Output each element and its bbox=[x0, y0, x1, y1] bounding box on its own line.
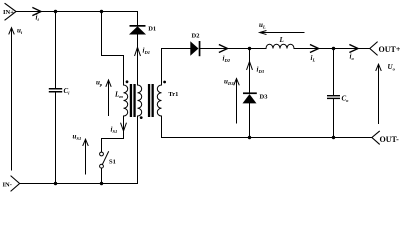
current arrow i_L bbox=[311, 45, 319, 52]
node junction D3 bottom bbox=[248, 136, 251, 139]
wire D3 branch lower bbox=[249, 103, 251, 137]
transformer core bars right bbox=[148, 84, 150, 117]
wire inductor to OUT+ bbox=[294, 48, 370, 50]
wire top rail bbox=[16, 11, 138, 13]
voltage arrow u_S1 bbox=[83, 139, 88, 174]
svg-text:uD3: uD3 bbox=[224, 78, 234, 87]
svg-text:iD3: iD3 bbox=[257, 66, 265, 75]
node junction bottom switch bbox=[100, 182, 103, 185]
svg-text:iS1: iS1 bbox=[111, 126, 118, 135]
node junction top C_i bbox=[54, 10, 57, 13]
node demag polarity dot bbox=[140, 116, 143, 119]
svg-text:Co: Co bbox=[342, 95, 350, 104]
wire C_i branch upper bbox=[55, 12, 57, 89]
transformer Tr1 demagnetizing winding bbox=[138, 85, 142, 116]
switch S1 bbox=[100, 152, 104, 156]
svg-text:ii: ii bbox=[36, 14, 40, 23]
svg-text:D2: D2 bbox=[192, 33, 200, 40]
voltage arrow u_L bbox=[260, 31, 304, 35]
wire primary top lead bbox=[102, 12, 124, 86]
wire primary bottom lead bbox=[102, 116, 124, 152]
svg-text:Lm: Lm bbox=[114, 91, 123, 100]
svg-text:iL: iL bbox=[311, 54, 316, 63]
current arrow i_i bbox=[33, 8, 41, 16]
diode D3 bbox=[243, 94, 257, 103]
voltage arrow u_p bbox=[106, 80, 111, 116]
capacitor C_i bbox=[49, 88, 62, 90]
node secondary polarity dot bbox=[163, 81, 166, 84]
transformer Tr1 secondary winding bbox=[157, 85, 161, 116]
voltage arrow u_D3 bbox=[234, 79, 239, 124]
current arrow i_D3 bbox=[247, 62, 253, 70]
wire secondary top lead bbox=[162, 49, 191, 86]
wire C_o branch upper bbox=[333, 49, 335, 96]
current arrow i_D2 bbox=[220, 45, 228, 52]
transformer Tr1 primary winding bbox=[124, 85, 128, 116]
svg-text:Uo: Uo bbox=[388, 63, 396, 72]
node junction top primary bbox=[100, 10, 103, 13]
svg-text:iD1: iD1 bbox=[143, 47, 151, 56]
svg-text:D1: D1 bbox=[148, 26, 156, 33]
terminal IN+ bbox=[5, 4, 16, 21]
svg-text:uL: uL bbox=[259, 21, 266, 30]
svg-text:up: up bbox=[96, 79, 103, 88]
current arrow i_o bbox=[350, 45, 358, 52]
wire secondary bottom lead / output bottom rail bbox=[162, 116, 372, 138]
svg-text:OUT-: OUT- bbox=[380, 135, 400, 144]
svg-text:uS1: uS1 bbox=[73, 133, 82, 142]
node junction D3 top bbox=[248, 47, 251, 50]
voltage arrow u_i bbox=[9, 28, 14, 170]
wire bottom rail bbox=[20, 116, 138, 184]
wire node D3 to inductor bbox=[250, 48, 267, 50]
svg-text:iD2: iD2 bbox=[223, 55, 231, 64]
wire C_o branch lower bbox=[333, 99, 335, 137]
svg-text:IN+: IN+ bbox=[3, 9, 14, 16]
terminal OUT+ bbox=[370, 42, 377, 55]
svg-text:S1: S1 bbox=[109, 159, 116, 166]
wire D3 branch upper bbox=[249, 49, 251, 93]
diode D1 bbox=[129, 26, 146, 34]
wire D1 cathode to top rail bbox=[137, 12, 139, 26]
wire D2 to node D3 bbox=[200, 48, 249, 50]
terminal IN- bbox=[11, 176, 20, 191]
wire demag top lead / D1 anode bbox=[137, 35, 139, 86]
svg-text:IN-: IN- bbox=[3, 181, 12, 188]
diode D2 bbox=[190, 41, 198, 56]
svg-text:io: io bbox=[350, 53, 355, 62]
svg-text:Tr1: Tr1 bbox=[168, 91, 178, 98]
wire switch to bottom rail bbox=[101, 168, 103, 183]
svg-text:OUT+: OUT+ bbox=[379, 45, 400, 54]
transformer core bars left bbox=[130, 84, 132, 117]
svg-text:ui: ui bbox=[17, 27, 23, 36]
terminal OUT- bbox=[372, 131, 379, 144]
inductor L bbox=[266, 44, 294, 48]
node junction C_o top bbox=[332, 47, 335, 50]
current arrow i_S1 bbox=[121, 123, 127, 131]
capacitor C_o bbox=[327, 95, 340, 96]
voltage arrow U_o bbox=[376, 64, 381, 123]
wire C_i branch lower bbox=[55, 93, 57, 184]
current arrow i_D1 bbox=[135, 47, 141, 55]
node junction bottom C_i bbox=[54, 182, 57, 185]
node junction C_o bottom bbox=[332, 136, 335, 139]
svg-text:L: L bbox=[279, 36, 284, 44]
svg-text:Ci: Ci bbox=[64, 87, 71, 96]
node primary polarity dot bbox=[126, 80, 129, 83]
svg-text:D3: D3 bbox=[260, 93, 269, 100]
